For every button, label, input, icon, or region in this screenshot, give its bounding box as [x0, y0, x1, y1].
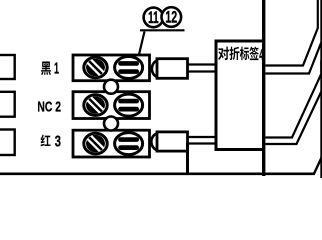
connector pin box P2	[0, 92, 15, 117]
terminal block TB1 row 2	[73, 92, 150, 119]
drop line from ferrule row3	[186, 143, 189, 174]
ferrule row1	[157, 59, 188, 79]
connector pin box P3	[0, 130, 15, 156]
wire row1 right segment lower line	[266, 0, 322, 74]
screw terminal row1 right	[115, 57, 143, 79]
svg-text:3: 3	[55, 133, 61, 150]
mounting hole circle upper	[104, 80, 118, 94]
fold label box	[215, 41, 264, 151]
svg-text:1: 1	[54, 61, 59, 78]
wire row3 right segment lower line	[266, 89, 322, 144]
callout circle 12	[162, 7, 182, 27]
fold label text 对折标签4	[218, 47, 229, 61]
screw terminal row2 right	[115, 94, 143, 116]
wire row3 left segment lower line	[188, 142, 217, 144]
wire row1 right segment upper line	[266, 0, 318, 66]
wire row3 right segment upper line	[266, 60, 322, 138]
callout circle 11	[144, 8, 164, 28]
terminal block TB1 row 3	[73, 130, 150, 157]
svg-text:11: 11	[148, 9, 159, 27]
wire row1 left segment lower line	[188, 70, 217, 72]
svg-text:4: 4	[259, 47, 264, 64]
screw terminal row1 left	[84, 56, 107, 80]
screw terminal row3 right	[115, 133, 143, 155]
connector pin box P1	[0, 55, 15, 79]
mounting hole circle lower	[104, 117, 118, 131]
crimp lug row1	[152, 61, 157, 78]
screw terminal row3 left	[84, 132, 107, 156]
panel bottom line	[0, 173, 314, 176]
svg-text:NC 2: NC 2	[37, 98, 61, 115]
crimp lug row3	[151, 134, 157, 151]
wire bottom right diagonal	[314, 156, 322, 175]
wire row1 left segment upper line	[188, 63, 217, 65]
terminal block TB1 row 1	[73, 55, 150, 81]
wire label 黑 1	[41, 62, 51, 76]
ferrule row3	[157, 132, 188, 151]
border right edge	[320, 0, 322, 178]
callout underline	[140, 29, 185, 31]
svg-text:12: 12	[165, 9, 177, 27]
leader line to terminal block	[139, 32, 145, 55]
panel vertical line	[262, 0, 265, 176]
wire label 红 3	[41, 135, 51, 147]
screw terminal row2 left	[84, 93, 107, 117]
wire row3 left segment upper line	[188, 136, 217, 138]
